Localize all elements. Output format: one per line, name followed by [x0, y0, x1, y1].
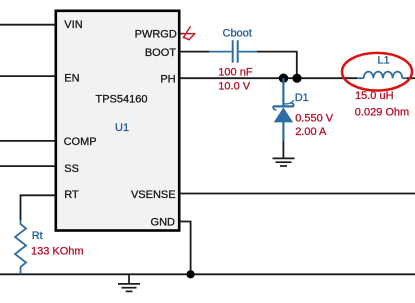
svg-text:U1: U1 [115, 122, 129, 134]
no-connect marker PWRGD (red zigzag) [182, 26, 196, 40]
pin stub PWRGD [179, 33, 184, 35]
node junction dot (GND to rail) [187, 270, 195, 278]
svg-text:0.550 V: 0.550 V [295, 113, 334, 125]
inductor L1 [357, 72, 407, 79]
wire SS [0, 165, 56, 167]
svg-text:15.0 uH: 15.0 uH [355, 90, 394, 102]
svg-text:EN: EN [64, 72, 79, 84]
ground (rail symbol) [118, 274, 140, 291]
wire VIN [0, 24, 56, 26]
wire RT to resistor [21, 195, 56, 220]
svg-text:PWRGD: PWRGD [135, 29, 177, 41]
svg-text:D1: D1 [295, 92, 309, 104]
node junction dot (diode tap) [279, 74, 288, 83]
svg-text:TPS54160: TPS54160 [96, 94, 148, 106]
svg-text:133 KOhm: 133 KOhm [31, 246, 84, 258]
svg-text:VSENSE: VSENSE [131, 189, 176, 201]
label leader D1 [284, 100, 294, 104]
wire BOOT right segment down to PH node [257, 52, 297, 79]
capacitor Cboot [209, 40, 257, 63]
diode D1 (Schottky) [273, 78, 294, 141]
svg-text:GND: GND [151, 216, 176, 228]
wire PH [179, 77, 357, 79]
resistor Rt [15, 220, 26, 274]
wire COMP [0, 140, 56, 142]
node junction dot (boot tap) [292, 74, 301, 83]
svg-text:SS: SS [64, 163, 79, 175]
svg-text:100 nF: 100 nF [218, 66, 253, 78]
svg-text:BOOT: BOOT [145, 47, 176, 59]
svg-text:10.0 V: 10.0 V [218, 81, 250, 93]
svg-text:PH: PH [160, 73, 175, 85]
ground (below D1) [273, 158, 295, 166]
op-amp U1 body (TPS54160 IC box) [56, 11, 179, 231]
wire VSENSE [179, 193, 415, 195]
wire EN [0, 75, 56, 77]
svg-text:COMP: COMP [64, 136, 97, 148]
svg-text:2.00 A: 2.00 A [295, 126, 327, 138]
wire inductor to right edge [407, 77, 415, 79]
svg-text:VIN: VIN [64, 19, 82, 31]
svg-text:Cboot: Cboot [223, 28, 252, 40]
annotation ellipse around L1 [342, 53, 412, 91]
wire ground rail [0, 273, 415, 275]
wire BOOT left segment [179, 51, 209, 53]
svg-text:RT: RT [64, 189, 79, 201]
svg-text:Rt: Rt [32, 230, 43, 242]
svg-text:0.029 Ohm: 0.029 Ohm [355, 107, 409, 119]
wire GND to rail [179, 222, 191, 275]
wire diode to ground [282, 141, 284, 158]
svg-text:L1: L1 [378, 54, 390, 66]
